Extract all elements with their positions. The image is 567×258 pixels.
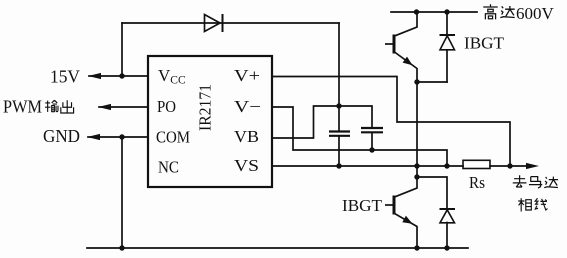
svg-text:VS: VS [234,156,259,175]
wire emitter-diode junction upper [417,81,447,83]
Q1 emitter arrow [403,57,413,66]
node dot bottom rail D3 anode [444,245,449,250]
diode D1 bootstrap [205,14,223,32]
wire bottom rail [87,247,468,249]
node dot 15V junction [119,73,124,78]
wire C2 bottom lead [371,133,373,151]
transistor Q2 lower IGBT [385,196,394,215]
wire mid vertical half-bridge [416,82,418,177]
svg-text:IBGT: IBGT [464,34,505,53]
svg-text:V−: V− [234,97,261,116]
svg-text:VB: VB [234,127,259,146]
wire top vertical into capacitor C1 [338,23,340,131]
arrow 15V [88,73,101,79]
node dot output after Rs [507,163,512,168]
svg-text:IBGT: IBGT [342,196,383,215]
wire GND vertical down [121,137,123,248]
node dot rail Q1 collector [414,9,419,14]
wire C1 bottom lead [338,136,340,166]
wire Q2 emitter [395,214,418,249]
wire Q1 collector [395,12,418,36]
diode D2 upper freewheel [440,35,456,50]
transistor Q1 upper IGBT [385,35,394,54]
diode D3 bottom lead [446,223,448,249]
resistor Rs [463,160,490,168]
wire VS line [272,165,463,167]
wire 15V input [89,75,148,77]
label to motor phase line 2 [518,198,531,211]
node dot GND junction [119,134,124,139]
diode D3 lower freewheel [440,209,456,223]
node dot bottom-left junction [119,245,124,250]
capacitor C2 [361,128,383,132]
svg-text:PO: PO [157,97,176,116]
svg-text:GND: GND [43,126,80,146]
node dot VS mid junction [414,163,419,168]
wire Q2 collector [395,177,418,197]
label to motor phase line 1 [513,175,527,187]
diode D2 leads [446,12,448,82]
wire vertical from top rail to 15V line [121,23,123,76]
wire output line after Rs [490,165,529,167]
Q2 emitter arrow [402,216,412,224]
node dot C2 bottom on V- [369,147,374,152]
label up-to-600V [483,4,497,19]
svg-text:600V: 600V [516,4,555,23]
svg-text:Rs: Rs [469,173,485,192]
node dot VS / V- junction [444,163,449,168]
node dot Q1 emitter junction [414,79,419,84]
wire top 600V rail [391,11,477,13]
wire Q1 emitter [395,52,418,82]
svg-text:COM: COM [156,128,190,147]
wire PWM input [99,106,148,108]
arrow PWM [98,104,111,110]
wire GND input [88,136,148,138]
IC U1 IR2171 box [148,56,272,187]
svg-text:15V: 15V [50,67,80,87]
capacitor C1 [329,132,350,136]
wire top bootstrap rail [122,22,339,24]
node dot bottom rail Q2 emitter [414,245,419,250]
svg-text:IR2171: IR2171 [196,84,215,131]
arrow GND [87,134,100,140]
svg-text:PWM: PWM [3,97,42,117]
arrow output to motor [526,163,539,169]
svg-text:NC: NC [158,158,179,177]
svg-text:V+: V+ [234,66,260,85]
node dot D3 tee junction [414,174,419,179]
node dot VB/bootstrap junction [336,103,341,108]
wire V- run to VS node left of Rs [272,107,447,166]
node dot C1 bottom on VS [336,163,341,168]
wire tee to lower diode [417,177,447,209]
wire VB run to caps top [272,106,372,138]
node dot rail D2 cathode [444,9,449,14]
wire V+ run to output node [272,77,510,167]
